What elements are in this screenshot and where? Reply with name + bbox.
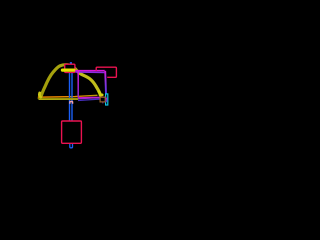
wire: olive base line dark: [38, 97, 78, 99]
violet horizontal line: [75, 71, 104, 74]
top-right red open box: [96, 67, 116, 77]
bottom box (crimson, black fill): [62, 121, 82, 143]
wire: indigo base row: [78, 99, 100, 100]
wire: blue right vertical post: [71, 72, 73, 121]
wire: violet base row: [78, 98, 100, 99]
brown boxlet (black fill over cyan): [100, 97, 105, 102]
wire: indigo tick below brown box: [102, 101, 104, 103]
wire: blue left vertical post: [69, 72, 71, 121]
dome right foot blob: [99, 92, 102, 95]
magenta square top edge: [75, 70, 105, 72]
yellow handle bar inside top box: [63, 68, 74, 71]
top box (crimson, black fill): [65, 64, 75, 72]
dome right flank highlight: [78, 72, 101, 95]
magenta square left edge: [77, 71, 79, 98]
wire: olive base line bright: [39, 98, 78, 100]
cyan connector rectangle: [106, 94, 108, 105]
wire: blue stub above top box: [70, 62, 72, 64]
magenta-to-violet elbow vertical: [104, 71, 107, 94]
wire: blue U hook below bottom box: [70, 144, 73, 148]
magenta corner hook (gradient to blue): [105, 98, 107, 102]
dome arc stroke: [41, 65, 100, 97]
magenta square bottom edge: [78, 96, 106, 99]
pink bracket over blue posts: [70, 102, 73, 104]
dome left foot blob: [39, 93, 40, 97]
wire: orange base line: [38, 95, 97, 97]
